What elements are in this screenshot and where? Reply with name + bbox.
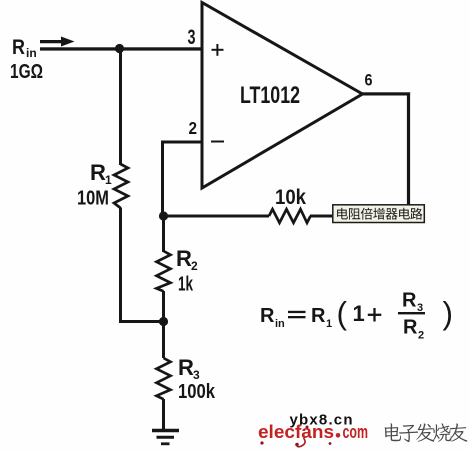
ground symbol bbox=[152, 431, 179, 444]
svg-text:R: R bbox=[12, 36, 25, 59]
op-amp plus input marking bbox=[212, 44, 224, 56]
resistor R3 zigzag bbox=[157, 358, 171, 399]
node input junction bbox=[115, 44, 124, 53]
svg-text:R: R bbox=[178, 355, 194, 380]
watermark char 发 bbox=[416, 423, 434, 441]
svg-text:in: in bbox=[275, 318, 285, 330]
svg-text:6: 6 bbox=[365, 72, 373, 90]
label text char 增 bbox=[373, 208, 384, 220]
svg-text:R: R bbox=[403, 317, 418, 339]
svg-text:10k: 10k bbox=[275, 186, 306, 209]
op-amp U1 LT1012 triangle bbox=[202, 3, 363, 189]
watermark char 烧 bbox=[432, 424, 451, 442]
label text char 倍 bbox=[361, 208, 373, 220]
svg-text:com: com bbox=[343, 421, 369, 442]
svg-text:R: R bbox=[90, 160, 106, 185]
wire R2 to lower node bbox=[162, 291, 165, 322]
svg-text:100k: 100k bbox=[178, 381, 216, 403]
node feedback junction bbox=[159, 211, 168, 220]
svg-text:R: R bbox=[402, 290, 417, 312]
wire pin2 horizontal bbox=[161, 141, 202, 144]
wire output from apex bbox=[362, 92, 410, 95]
label text char 阻 bbox=[349, 208, 360, 219]
svg-text:in: in bbox=[26, 46, 37, 60]
svg-text:): ) bbox=[443, 295, 454, 331]
resistor R1 zigzag bbox=[114, 164, 128, 208]
svg-text:elecfans: elecfans bbox=[258, 421, 334, 442]
resistor R2 zigzag bbox=[157, 251, 171, 291]
label text char 电 bbox=[399, 208, 410, 220]
wire R1 down to lower node bbox=[119, 208, 122, 324]
svg-text:2: 2 bbox=[418, 330, 424, 342]
svg-text:3: 3 bbox=[188, 25, 196, 49]
label text char 路 bbox=[410, 208, 422, 220]
svg-text:2: 2 bbox=[191, 259, 198, 273]
svg-text:1: 1 bbox=[353, 301, 365, 326]
svg-text:2: 2 bbox=[189, 118, 198, 138]
svg-text:(: ( bbox=[337, 295, 348, 331]
watermark char 友 bbox=[449, 423, 467, 441]
resistor 10k feedback zigzag bbox=[269, 209, 311, 223]
svg-text:R: R bbox=[311, 305, 326, 327]
svg-text:LT1012: LT1012 bbox=[240, 82, 300, 109]
logo splash dots bbox=[260, 441, 263, 444]
wire input to pin3 bbox=[40, 47, 203, 50]
svg-text:1: 1 bbox=[326, 318, 332, 330]
wire node down to R2 bbox=[162, 216, 165, 252]
label text char 器 bbox=[386, 208, 398, 219]
wire node down to R3 bbox=[162, 321, 165, 358]
wire feedback right segment bbox=[310, 215, 408, 218]
watermark char 电 bbox=[385, 423, 401, 441]
svg-text:1GΩ: 1GΩ bbox=[10, 61, 43, 83]
label text char 电 bbox=[337, 208, 348, 220]
wire R3 to ground bbox=[162, 399, 165, 430]
wire R1 bottom horizontal to node bbox=[119, 320, 164, 323]
node R2 R3 junction bbox=[159, 317, 168, 326]
wire output down to feedback bbox=[407, 93, 410, 208]
wire pin2 down to feedback node bbox=[161, 141, 164, 218]
svg-text:10M: 10M bbox=[77, 188, 109, 210]
input current arrow bbox=[40, 37, 75, 47]
svg-text:1k: 1k bbox=[178, 274, 194, 296]
watermark char 子 bbox=[399, 425, 418, 442]
label box for circuit title bbox=[333, 205, 425, 223]
formula fraction bar bbox=[398, 312, 425, 314]
logo elecfans.com bbox=[258, 421, 368, 447]
svg-text:1: 1 bbox=[105, 173, 112, 187]
formula Rin = R1 ( 1 + R3/R2 ) bbox=[260, 305, 285, 330]
svg-text:3: 3 bbox=[193, 368, 200, 382]
op-amp minus input marking bbox=[211, 141, 224, 143]
wire junction down to R1 bbox=[119, 48, 122, 165]
svg-text:R: R bbox=[260, 305, 275, 327]
wire feedback left segment bbox=[162, 215, 269, 218]
svg-text:R: R bbox=[176, 246, 192, 271]
